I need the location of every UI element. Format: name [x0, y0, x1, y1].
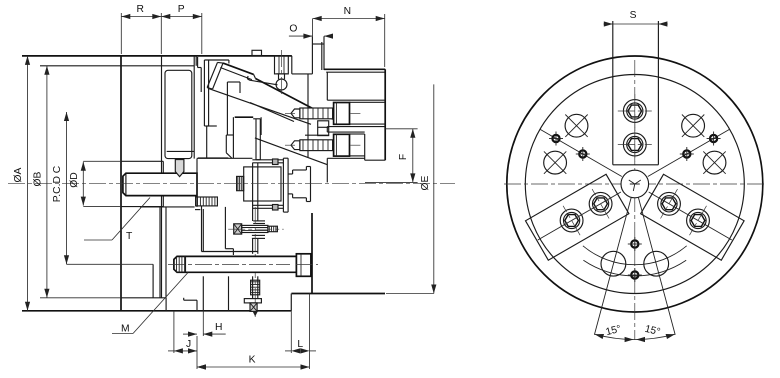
thread engagement upper	[196, 197, 218, 206]
adjusting screw	[234, 224, 242, 234]
crossed hole 45deg	[682, 114, 705, 137]
svg-text:J: J	[186, 339, 191, 350]
svg-text:ØA: ØA	[13, 167, 24, 182]
flange bottom face	[365, 159, 386, 161]
jaw bolt at 330deg r73	[683, 206, 712, 235]
pocket line up	[253, 220, 265, 222]
lower guide incline	[255, 138, 328, 165]
rod thread end	[185, 256, 187, 272]
bolt PCD arc bottom	[583, 246, 687, 265]
flange right edge	[384, 69, 386, 160]
counterbore lines upper	[350, 101, 386, 103]
top jaw guide slot	[612, 21, 614, 165]
stud left upper	[252, 163, 254, 221]
upper seal line 2	[252, 162, 283, 164]
wedge left end cap	[207, 62, 217, 87]
bore bottom line	[121, 206, 163, 208]
crossed hole 135deg	[565, 114, 588, 137]
svg-text:K: K	[249, 355, 256, 366]
wedge top incline lower	[256, 79, 334, 120]
pocket bottom	[225, 248, 233, 250]
T-nut left	[232, 117, 234, 158]
lower seal line 2	[252, 207, 283, 209]
flange front face 2 / O ext	[323, 36, 325, 70]
foot left vertical	[228, 276, 230, 311]
pin hole 270deg r60	[628, 237, 642, 251]
svg-text:O: O	[289, 24, 297, 35]
plunger thread left	[237, 176, 244, 190]
pocket line up2	[253, 223, 265, 225]
horizontal centerline right view	[504, 183, 766, 185]
svg-text:S: S	[630, 10, 637, 21]
stud right lower	[257, 276, 259, 298]
plunger center block	[244, 167, 281, 201]
dimension R	[121, 16, 161, 18]
body front face upper	[193, 56, 195, 159]
dimension L	[285, 350, 291, 352]
jaw bolt at 330deg r39.5	[654, 189, 683, 218]
boss top	[312, 43, 324, 45]
jaw block right	[225, 135, 227, 153]
body section boundary	[161, 56, 163, 298]
jaw T-nut block	[318, 121, 329, 136]
rod centerline	[168, 264, 290, 266]
rod centerline tick	[296, 264, 318, 266]
dimension H	[183, 333, 197, 335]
rod lower zone line	[140, 206, 195, 208]
svg-text:ØE: ØE	[420, 175, 431, 190]
jaw bolt at 210deg r39.5	[586, 189, 615, 218]
outer circle of chuck face	[507, 56, 763, 312]
foot step	[184, 299, 197, 301]
stud washer	[244, 299, 261, 303]
boss left	[201, 206, 203, 252]
wedge top incline	[223, 63, 254, 74]
dimension K	[197, 366, 310, 368]
guide rail right	[208, 60, 210, 126]
stud pocket top	[253, 118, 260, 120]
radial line upper-left	[540, 130, 621, 177]
left jaw axis line	[538, 192, 621, 240]
mounting hole 285deg	[644, 251, 669, 276]
svg-text:M: M	[121, 324, 130, 335]
pin hole 30deg r91	[707, 132, 721, 146]
pocket left	[224, 207, 226, 249]
upper bolt hole bottom	[327, 126, 385, 128]
flange left edge lower	[326, 158, 328, 182]
stud centerline	[254, 207, 256, 317]
stud left lower	[252, 276, 254, 298]
15deg line left	[594, 198, 631, 335]
stud nut	[250, 303, 257, 312]
stud pocket right	[259, 119, 261, 160]
bore top line	[121, 160, 163, 162]
lower bolt hole top	[327, 131, 364, 133]
label T leader	[84, 239, 112, 241]
svg-text:P: P	[178, 4, 185, 15]
slot line lower part	[202, 276, 204, 311]
flange mounting bolt upper	[291, 109, 300, 118]
body step line	[167, 150, 195, 152]
step line	[195, 209, 200, 211]
label M leader	[112, 333, 133, 335]
main centerline	[8, 183, 455, 185]
face plate left	[282, 158, 284, 212]
wedge cam circle	[276, 79, 287, 90]
counterbore lines lower	[350, 133, 365, 135]
flange top face	[324, 68, 385, 70]
dimension PCD C	[66, 112, 68, 264]
pin hole 270deg r91	[628, 268, 642, 282]
pocket line dn2	[252, 237, 265, 239]
step shelf	[198, 67, 202, 69]
slot left bottom	[196, 300, 198, 311]
T-nut top thick	[235, 116, 254, 118]
drawbar adapter rod	[123, 173, 197, 195]
right jaw rectangle	[641, 174, 744, 260]
body front right face	[307, 74, 309, 158]
jaw block base	[198, 157, 228, 159]
body right edge lower	[311, 213, 313, 294]
counterbore face lower	[364, 134, 366, 160]
stud thread	[251, 280, 260, 295]
body bottom face lower	[22, 310, 291, 312]
stud tip	[253, 311, 258, 316]
wedge bottom incline	[208, 88, 311, 124]
flange mounting bolt lower	[291, 141, 300, 150]
T-nut right	[260, 117, 262, 135]
guide rail left	[203, 60, 205, 126]
cam slot on wedge	[247, 76, 277, 85]
pocket right down	[232, 249, 234, 255]
svg-text:L: L	[297, 339, 303, 350]
upper seal square	[273, 159, 279, 165]
front face corner vertical	[197, 57, 199, 68]
arc arrowheads	[595, 334, 604, 339]
jaw bolt at 90deg r73	[618, 94, 652, 128]
upper bolt hole top	[327, 99, 385, 101]
pin hole 30deg r60	[680, 147, 694, 161]
housing left wall	[200, 68, 202, 93]
bore step vertical lower-left	[152, 264, 154, 298]
guideway top	[204, 59, 229, 61]
jaw block top	[207, 125, 217, 127]
flange left edge mid	[326, 127, 328, 133]
screw centerline	[228, 228, 284, 230]
dimension S	[604, 23, 668, 25]
wedge notch	[254, 74, 256, 78]
foot step v	[183, 298, 185, 300]
stud left mid	[252, 238, 254, 253]
rod head	[296, 254, 311, 276]
boss top line	[202, 251, 258, 253]
dimension OA	[27, 56, 29, 311]
bore lower left	[159, 207, 161, 298]
center pilot circle	[621, 170, 649, 198]
jaw incline short	[250, 103, 294, 122]
dimension OB	[46, 66, 48, 298]
svg-text:ØB: ØB	[33, 171, 44, 186]
guideway corner	[228, 60, 230, 64]
vertical centerline right view	[634, 60, 636, 340]
bore end upper	[162, 161, 164, 173]
locating pin	[175, 160, 184, 177]
body back plate left edge	[120, 56, 122, 311]
15deg dimension arc	[595, 334, 675, 339]
lower seal square	[273, 205, 279, 211]
pin hole 150deg r91	[549, 132, 563, 146]
left jaw rectangle	[526, 174, 629, 260]
pin hole 150deg r60	[576, 147, 590, 161]
jaw block chamfer	[226, 153, 231, 158]
flange boss left / N ext	[311, 36, 313, 74]
flange front face	[321, 42, 323, 70]
jaw bolt at 90deg r39.5	[618, 128, 652, 162]
svg-text:R: R	[136, 4, 143, 15]
dimension OE	[433, 84, 435, 293]
key block on wedge top	[252, 50, 262, 55]
body bottom step vertical	[165, 298, 167, 311]
inner circle of chuck face	[525, 75, 744, 294]
bolt centerline	[281, 50, 283, 97]
stud pocket bottom	[256, 159, 260, 161]
face plate top	[283, 157, 288, 159]
slot line upper part	[202, 209, 204, 252]
right jaw axis line	[649, 192, 732, 240]
face plate bottom	[283, 211, 288, 213]
svg-text:ØD: ØD	[69, 172, 80, 187]
jaw bolt at 210deg r73	[557, 206, 586, 235]
svg-text:T: T	[126, 231, 133, 242]
front cylinder section upper	[165, 70, 192, 158]
dimension N	[313, 18, 385, 20]
pocket line dn	[252, 234, 265, 236]
svg-text:F: F	[398, 154, 409, 160]
mounting hole 255deg	[601, 251, 626, 276]
lower bolt hole bottom	[327, 157, 364, 159]
stud right upper	[257, 163, 259, 221]
dimension F	[386, 128, 418, 130]
svg-text:N: N	[344, 6, 351, 17]
crossed hole 165deg	[544, 151, 567, 174]
crossed hole 15deg	[703, 151, 726, 174]
stud pocket left	[255, 119, 257, 160]
face plate right	[287, 158, 289, 212]
body top face inner step	[40, 65, 194, 67]
body top face	[22, 55, 292, 57]
rod left chamfer line	[125, 173, 127, 195]
T-nut mid line	[318, 126, 329, 128]
lower seal line	[252, 204, 283, 206]
dimension OD	[82, 162, 84, 206]
wedge top inner edge	[220, 68, 252, 80]
stud right mid	[257, 238, 259, 253]
jaw top face	[227, 81, 240, 83]
T-nut bottom line	[305, 134, 329, 136]
actuating rod lower	[174, 256, 297, 272]
flange left edge upper	[326, 72, 328, 100]
guide rail bottom	[204, 125, 208, 127]
15deg line right	[638, 198, 675, 335]
jaw base second line	[197, 157, 253, 159]
dimension O	[289, 35, 313, 37]
bore lower right	[165, 207, 167, 298]
wedge clamp bolt	[275, 56, 289, 74]
jaw top face drop	[239, 82, 241, 93]
svg-text:P.C.D C: P.C.D C	[52, 165, 63, 202]
jaw slot center line	[226, 82, 228, 135]
svg-text:H: H	[215, 322, 222, 333]
bore end lower	[162, 196, 164, 207]
center pilot boss	[288, 173, 293, 175]
body bottom face upper	[121, 297, 166, 299]
front face corner step	[195, 56, 197, 66]
rod right face	[196, 159, 198, 207]
dimension P	[161, 16, 202, 18]
pin PCD arc bottom	[583, 260, 686, 276]
jaw step	[226, 134, 233, 136]
flange bottom face line	[291, 293, 385, 295]
jaw block left	[206, 126, 208, 158]
center mark	[629, 180, 641, 191]
flange top inner	[326, 71, 385, 73]
radial line upper-right	[648, 130, 729, 177]
dimension J	[168, 350, 174, 352]
foot right vertical	[290, 294, 292, 311]
OB bottom extension	[40, 297, 121, 299]
upper seal line	[252, 159, 283, 161]
